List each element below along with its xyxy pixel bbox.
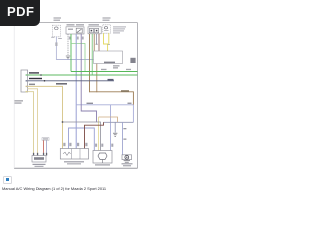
- green wire 2 from junction connector: [28, 74, 138, 76]
- navy wire labels: [29, 78, 114, 85]
- note box D: [94, 51, 123, 64]
- A/C relay box (dashed): [103, 25, 111, 33]
- wire black dotted to ground from box B: [67, 34, 69, 56]
- label text above fuse box A: [54, 17, 62, 20]
- fuse box A (dashed): [53, 25, 61, 37]
- wire brown from fan switch: [89, 34, 91, 92]
- connector blob near right border: [130, 58, 135, 63]
- yellow wire row4 to blower: [28, 92, 34, 156]
- wire brown from note box to brown bus: [96, 64, 98, 93]
- tan wire row3 from junction connector: [28, 86, 63, 148]
- download icon button: [3, 176, 12, 185]
- wire slate stub from fan switch: [96, 34, 98, 44]
- PDF badge: [0, 0, 40, 26]
- green bus 1 label: [101, 69, 131, 70]
- blower resistor label text: [64, 161, 84, 164]
- legend text block top right: [113, 26, 126, 33]
- gray wire bus y122: [62, 121, 101, 150]
- compressor clutch: [122, 155, 132, 160]
- wire yellow stub from relay: [108, 33, 110, 44]
- compressor wire label: [123, 128, 126, 140]
- brown wire label: [121, 90, 129, 92]
- navy wire compressor lower: [132, 105, 134, 123]
- wire label ticks under box B: [69, 37, 84, 40]
- tan wire mid right: [99, 117, 118, 122]
- wire periwinkle long from box B: [75, 34, 77, 149]
- brown wire to compressor: [90, 92, 134, 105]
- wire pin ticks into left blower motor: [33, 153, 47, 156]
- green bus wire 1: [71, 71, 138, 73]
- label text above relay box: [103, 17, 111, 20]
- blower motor feed label box: [42, 138, 49, 141]
- junction connector box E: [21, 70, 28, 92]
- compressor ground hatch: [124, 161, 130, 163]
- blower motor (left) label text: [33, 164, 46, 167]
- frame left border: [13, 23, 15, 169]
- frame right border: [137, 23, 139, 169]
- frame bottom border: [14, 167, 138, 169]
- tan wire row3b to blower: [28, 89, 38, 156]
- label text above fan switch box: [89, 24, 100, 25]
- wire label ticks bottom-left cluster: [63, 143, 87, 146]
- wire maroon stub into note box right: [98, 34, 100, 51]
- wire green jog box B: [71, 44, 85, 72]
- wire green from fan switch: [91, 34, 93, 75]
- blue wire into blower: [46, 140, 48, 155]
- wire periwinkle branch right: [76, 103, 133, 151]
- wire maroon stub into note box: [93, 34, 95, 51]
- blower motor (left) box: [32, 156, 46, 163]
- wire label ticks blower motor cluster: [95, 144, 113, 147]
- blue wire bus y127: [104, 122, 134, 155]
- wire purple from box B: [81, 34, 96, 122]
- wire yellow from relay to note box: [104, 33, 108, 51]
- wire white/lavender from fuse box A: [51, 37, 93, 60]
- lavender wire bus y126.5: [69, 128, 95, 151]
- A/C switch box B: [66, 27, 84, 34]
- navy wire from junction connector: [28, 80, 114, 82]
- compressor label text: [122, 163, 133, 166]
- fan switch box: [88, 27, 101, 34]
- caption text: [2, 186, 106, 191]
- wire green from box B to green bus: [70, 34, 72, 72]
- ground symbol: [66, 56, 70, 59]
- maroon wire into resistor: [85, 122, 104, 148]
- frame top border: [14, 22, 138, 24]
- blower resistor box: [60, 149, 88, 160]
- tan wire label: [29, 84, 35, 86]
- note box D side text: [113, 65, 120, 68]
- pale yellow wire into blower motor: [98, 117, 100, 151]
- blower motor box: [93, 151, 112, 164]
- ground right of blower motor: [113, 133, 117, 136]
- green wire 2 label: [29, 72, 42, 76]
- blower motor label text: [95, 164, 110, 165]
- red wire into blower: [43, 140, 45, 155]
- junction connector label text: [15, 100, 24, 104]
- label text above switch box B: [67, 24, 85, 25]
